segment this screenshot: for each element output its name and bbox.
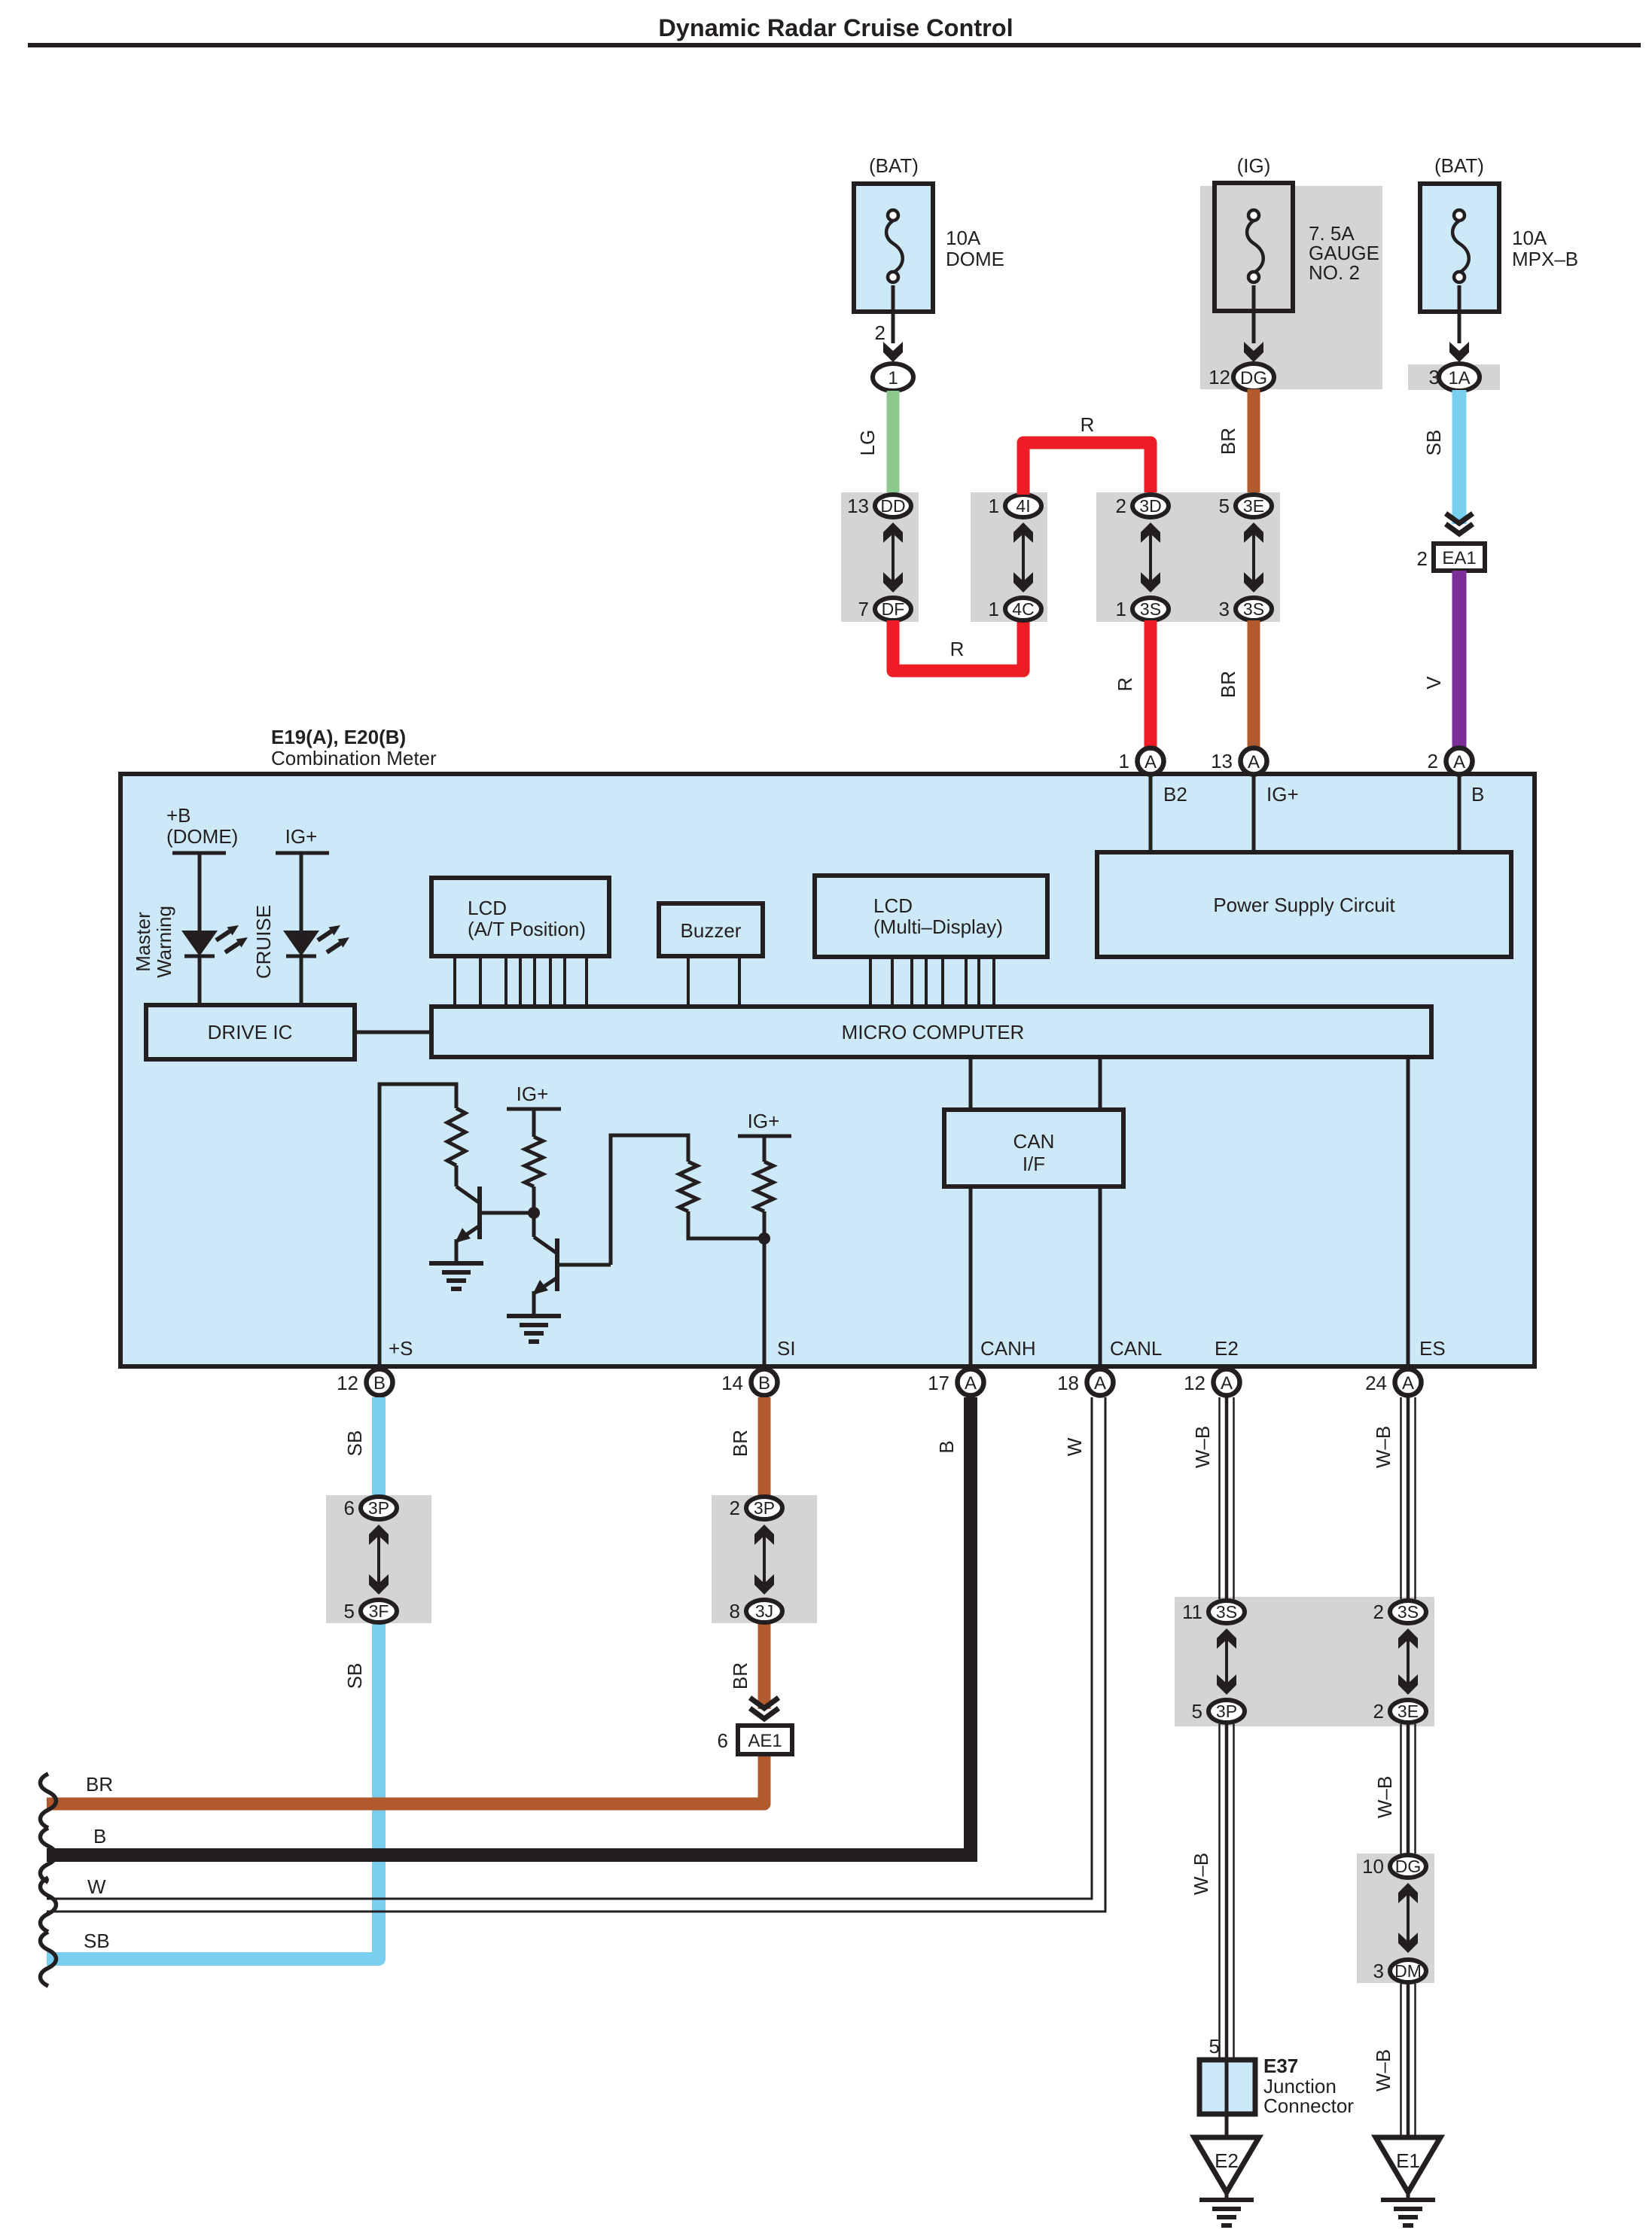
svg-text:IG+: IG+	[285, 825, 318, 848]
svg-text:2: 2	[1428, 750, 1438, 772]
svg-text:A: A	[1402, 1373, 1414, 1394]
power supply circuit U1	[1097, 852, 1511, 957]
svg-text:7: 7	[858, 598, 869, 620]
svg-text:LG: LG	[856, 430, 879, 456]
junction block DD/DF	[841, 492, 919, 622]
resistor R2	[525, 1137, 543, 1187]
svg-text:1: 1	[1116, 598, 1126, 620]
wire SB lower	[47, 1397, 379, 1959]
svg-text:V: V	[1422, 676, 1445, 690]
meter pin 12 A	[1184, 1369, 1239, 1396]
meter pin 14 B	[721, 1369, 777, 1396]
svg-text:IG+: IG+	[748, 1110, 780, 1132]
svg-text:A: A	[1094, 1373, 1106, 1394]
ground Q2	[507, 1316, 561, 1342]
svg-text:3P: 3P	[368, 1498, 389, 1518]
svg-text:2: 2	[730, 1497, 740, 1519]
transistor Q1	[455, 1165, 534, 1263]
wire R upper elbow 4I to 3D	[1023, 413, 1151, 495]
svg-text:2: 2	[875, 321, 885, 344]
svg-text:BR: BR	[86, 1773, 113, 1796]
svg-text:3: 3	[1373, 1960, 1384, 1982]
svg-text:3F: 3F	[369, 1601, 389, 1621]
svg-text:3E: 3E	[1397, 1701, 1419, 1721]
svg-text:B: B	[373, 1373, 386, 1394]
meter pin 2 A	[1428, 748, 1473, 775]
svg-text:R: R	[950, 638, 965, 660]
wire BR to meter pin 13A	[1217, 620, 1254, 748]
svg-text:MPX–B: MPX–B	[1512, 248, 1578, 270]
svg-text:5: 5	[1192, 1700, 1202, 1723]
svg-text:B: B	[758, 1373, 770, 1394]
svg-text:12: 12	[337, 1372, 358, 1394]
resistor R3	[679, 1162, 697, 1211]
svg-text:5: 5	[344, 1600, 355, 1622]
svg-text:Combination Meter: Combination Meter	[271, 747, 437, 769]
svg-text:DG: DG	[1240, 368, 1267, 388]
svg-text:1: 1	[888, 368, 898, 388]
wire +S internal	[379, 1084, 456, 1364]
drive ic	[146, 1005, 355, 1059]
svg-text:SB: SB	[343, 1663, 366, 1689]
svg-text:W: W	[1063, 1437, 1086, 1456]
meter pin 24 A	[1365, 1369, 1421, 1396]
wires LCD A/T leads	[455, 956, 587, 1007]
svg-text:AE1: AE1	[748, 1731, 782, 1751]
svg-text:DF: DF	[882, 599, 905, 619]
svg-text:ES: ES	[1419, 1337, 1446, 1360]
meter pin 13 A	[1211, 748, 1266, 775]
connector 2 EA1	[1417, 544, 1485, 571]
node base junction	[528, 1187, 540, 1237]
svg-text:EA1: EA1	[1442, 548, 1476, 568]
svg-text:3D: 3D	[1139, 496, 1161, 516]
junction block 3D/3S and 3E/3S	[1096, 492, 1280, 622]
wire W-B ES column	[1372, 1397, 1416, 2137]
svg-text:3E: 3E	[1243, 496, 1264, 516]
svg-text:3S: 3S	[1397, 1602, 1419, 1622]
connector 1	[873, 364, 913, 391]
wire LG	[856, 391, 893, 494]
svg-text:IG+: IG+	[1266, 783, 1299, 806]
node IG+ rail (drive ic)	[276, 825, 329, 931]
ground E2	[1194, 2137, 1259, 2225]
svg-text:R: R	[1081, 413, 1095, 436]
svg-text:Buzzer: Buzzer	[681, 919, 742, 942]
svg-text:DG: DG	[1395, 1857, 1422, 1876]
svg-text:Connector: Connector	[1263, 2094, 1354, 2117]
svg-text:+S: +S	[389, 1337, 413, 1360]
meter pin 18 A	[1057, 1369, 1113, 1396]
wire Q2 collector loop	[611, 1135, 688, 1265]
svg-text:13: 13	[1211, 750, 1233, 772]
svg-text:2: 2	[1116, 495, 1126, 517]
wire fuse MPX-B to connector 1A	[1449, 285, 1469, 362]
svg-text:3S: 3S	[1140, 599, 1161, 619]
wire R lower elbow DF to 4C	[893, 620, 1023, 671]
svg-text:A: A	[965, 1373, 977, 1394]
wire IG+ internal	[1254, 776, 1299, 852]
wire CANH internal	[971, 1057, 1036, 1364]
svg-text:LCD: LCD	[468, 897, 507, 919]
svg-text:W–B: W–B	[1190, 1853, 1212, 1895]
svg-text:17: 17	[928, 1372, 949, 1394]
svg-text:SB: SB	[84, 1930, 110, 1952]
svg-text:6: 6	[718, 1729, 728, 1752]
svg-text:6: 6	[344, 1497, 355, 1519]
svg-text:12: 12	[1184, 1372, 1205, 1394]
svg-text:2: 2	[1373, 1601, 1384, 1623]
svg-text:3J: 3J	[755, 1601, 773, 1621]
LCD (Multi-Display)	[815, 876, 1047, 957]
svg-text:12: 12	[1209, 366, 1230, 388]
junction connector E37	[1199, 2035, 1354, 2137]
wire fuse GAUGE to connector DG	[1244, 285, 1263, 362]
wire CANL internal	[1100, 1057, 1162, 1364]
svg-text:W: W	[87, 1875, 106, 1898]
svg-text:E37: E37	[1263, 2055, 1298, 2077]
node +B (DOME) rail	[166, 804, 238, 931]
buzzer	[659, 903, 763, 956]
svg-text:B: B	[93, 1825, 106, 1848]
wire BR upper	[1217, 389, 1254, 495]
svg-text:(IG): (IG)	[1237, 154, 1271, 177]
wire B internal	[1459, 776, 1484, 852]
svg-text:1A: 1A	[1448, 368, 1470, 388]
svg-text:W–B: W–B	[1373, 1776, 1396, 1818]
svg-text:(BAT): (BAT)	[1434, 154, 1484, 177]
junction block 4I/4C	[971, 492, 1047, 622]
wire R3 to SI node	[688, 1211, 764, 1238]
svg-text:SB: SB	[343, 1430, 366, 1457]
svg-text:1: 1	[989, 495, 999, 517]
svg-text:14: 14	[721, 1372, 743, 1394]
micro computer U2	[431, 1007, 1431, 1057]
svg-text:BR: BR	[1217, 671, 1239, 698]
svg-text:BR: BR	[729, 1662, 751, 1689]
svg-text:CRUISE: CRUISE	[252, 905, 275, 979]
wire SB upper	[1422, 390, 1459, 524]
svg-text:2: 2	[1373, 1700, 1384, 1723]
svg-text:B: B	[935, 1440, 958, 1453]
svg-text:Master: Master	[132, 912, 154, 972]
svg-text:2: 2	[1417, 547, 1428, 570]
meter pin 12 B	[337, 1369, 392, 1396]
node IG+ rail (SI)	[738, 1110, 791, 1162]
wire W lower	[47, 1397, 1105, 1912]
svg-text:A: A	[1145, 752, 1157, 772]
wire B lower	[47, 1397, 971, 1855]
svg-text:W–B: W–B	[1372, 2049, 1394, 2091]
svg-text:W–B: W–B	[1191, 1426, 1214, 1468]
svg-text:(BAT): (BAT)	[869, 154, 919, 177]
svg-text:24: 24	[1365, 1372, 1387, 1394]
svg-text:10A: 10A	[946, 227, 981, 249]
svg-text:E1: E1	[1396, 2149, 1420, 2172]
svg-text:W–B: W–B	[1372, 1426, 1394, 1468]
svg-text:CAN: CAN	[1013, 1130, 1055, 1153]
svg-text:BR: BR	[1217, 428, 1239, 455]
svg-text:CANH: CANH	[980, 1337, 1036, 1360]
svg-text:10: 10	[1362, 1855, 1384, 1878]
svg-text:18: 18	[1057, 1372, 1079, 1394]
svg-text:10A: 10A	[1512, 227, 1547, 249]
connector 6 AE1	[718, 1726, 792, 1754]
title	[28, 14, 1641, 47]
svg-text:4I: 4I	[1016, 496, 1030, 516]
svg-text:E2: E2	[1215, 2149, 1239, 2172]
junction block 3P/3J gray	[712, 1495, 817, 1623]
svg-text:R: R	[1114, 678, 1136, 692]
svg-text:13: 13	[847, 495, 869, 517]
connector 12 DG	[1209, 364, 1274, 391]
svg-text:B: B	[1471, 783, 1484, 806]
CAN I/F	[944, 1110, 1123, 1187]
wire W-B E2 column	[1190, 1397, 1234, 2060]
svg-text:1: 1	[1119, 750, 1129, 772]
fuse 10A MPX-B (BAT)	[1420, 154, 1578, 312]
svg-text:8: 8	[730, 1600, 740, 1622]
node IG+ rail (Q2)	[507, 1083, 561, 1137]
svg-text:11: 11	[1182, 1601, 1202, 1623]
svg-text:E19(A), E20(B): E19(A), E20(B)	[271, 726, 406, 748]
connector 2 3P / 8 3J	[730, 1497, 782, 1622]
svg-text:5: 5	[1209, 2035, 1220, 2058]
inline connector chevrons to AE1	[750, 1698, 779, 1719]
svg-text:BR: BR	[729, 1430, 751, 1457]
svg-text:DRIVE IC: DRIVE IC	[208, 1021, 293, 1043]
wire V	[1422, 571, 1459, 748]
wires buzzer leads	[688, 956, 739, 1007]
fuse 10A DOME (BAT)	[854, 154, 1004, 312]
svg-text:Dynamic Radar Cruise Control: Dynamic Radar Cruise Control	[658, 14, 1013, 41]
inline connector chevrons to EA1	[1446, 513, 1473, 534]
svg-text:IG+: IG+	[517, 1083, 549, 1105]
wire break squiggle W	[41, 1878, 56, 1932]
node SI junction	[758, 1211, 796, 1364]
svg-text:Warning: Warning	[153, 906, 175, 978]
svg-text:CANL: CANL	[1110, 1337, 1162, 1360]
wire B2 internal	[1151, 776, 1187, 852]
connector 10 DG / 3 DM	[1362, 1855, 1426, 1982]
svg-text:Power Supply Circuit: Power Supply Circuit	[1213, 894, 1395, 916]
svg-text:I/F: I/F	[1023, 1153, 1045, 1175]
svg-text:(DOME): (DOME)	[166, 825, 238, 848]
wire R to meter pin 1A	[1114, 620, 1151, 748]
svg-text:DOME: DOME	[946, 248, 1004, 270]
LCD (A/T Position)	[431, 878, 609, 956]
ground E1	[1376, 2137, 1440, 2225]
svg-text:3: 3	[1219, 598, 1230, 620]
svg-text:A: A	[1453, 752, 1465, 772]
wire ES internal	[1408, 1057, 1446, 1364]
transistor Q2	[532, 1237, 611, 1316]
junction block 3S/3P 3S/3E gray	[1175, 1597, 1434, 1726]
wire fuse DOME to connector 1	[875, 285, 903, 362]
meter pin 1 A	[1119, 748, 1164, 775]
svg-text:DD: DD	[880, 496, 905, 516]
svg-text:B2: B2	[1163, 783, 1187, 806]
svg-text:+B: +B	[166, 804, 191, 827]
svg-text:4C: 4C	[1012, 599, 1034, 619]
wire break squiggle SB	[41, 1932, 56, 1986]
svg-text:(Multi–Display): (Multi–Display)	[873, 915, 1003, 938]
svg-text:SB: SB	[1422, 430, 1445, 456]
resistor R4	[755, 1162, 773, 1211]
svg-text:MICRO COMPUTER: MICRO COMPUTER	[842, 1021, 1025, 1043]
ground Q1	[429, 1263, 483, 1289]
wires LCD Multi leads	[870, 957, 994, 1007]
svg-text:A: A	[1221, 1373, 1233, 1394]
svg-text:DM: DM	[1394, 1961, 1422, 1981]
connector 2 3S / 2 3E	[1373, 1601, 1426, 1723]
connector 6 3P / 5 3F	[344, 1497, 397, 1622]
combination meter E19(A) E20(B) box	[120, 726, 1535, 1366]
svg-text:3S: 3S	[1243, 599, 1264, 619]
svg-text:3P: 3P	[754, 1498, 775, 1518]
svg-text:LCD: LCD	[873, 894, 913, 917]
meter pin 17 A	[928, 1369, 983, 1396]
fuse 7.5A GAUGE NO.2 (IG)	[1200, 154, 1382, 389]
LED CRUISE	[252, 905, 349, 1007]
svg-text:SI: SI	[777, 1337, 796, 1360]
junction block DG/DM gray	[1357, 1854, 1434, 1983]
resistor R1	[447, 1108, 465, 1165]
wire break squiggle BR	[41, 1774, 56, 1828]
wire drive ic to micro computer	[355, 1031, 431, 1034]
svg-text:1: 1	[989, 598, 999, 620]
connector 3 1A	[1408, 364, 1500, 391]
svg-text:3S: 3S	[1216, 1602, 1237, 1622]
wire break squiggle B	[41, 1828, 56, 1882]
svg-text:A: A	[1248, 752, 1260, 772]
connector 11 3S / 5 3P	[1182, 1601, 1245, 1723]
svg-text:5: 5	[1219, 495, 1230, 517]
svg-text:3P: 3P	[1216, 1701, 1237, 1721]
svg-text:NO. 2: NO. 2	[1309, 261, 1360, 284]
LED Master Warning	[132, 906, 248, 1007]
wire BR lower	[47, 1397, 764, 1804]
svg-text:E2: E2	[1215, 1337, 1239, 1360]
junction block 3P/3F gray	[326, 1495, 431, 1623]
svg-text:(A/T Position): (A/T Position)	[468, 918, 586, 940]
